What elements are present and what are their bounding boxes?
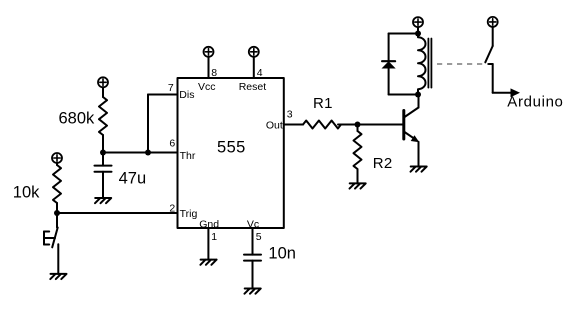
- svg-text:Reset: Reset: [239, 81, 267, 93]
- svg-text:6: 6: [169, 138, 175, 150]
- svg-text:680k: 680k: [59, 109, 96, 127]
- capacitor C 10n: [244, 255, 261, 261]
- wire 680k to node A: [102, 135, 104, 153]
- ground under 10n: [245, 289, 261, 294]
- svg-text:1: 1: [211, 231, 217, 243]
- wire pin5 Vc: [252, 228, 254, 255]
- svg-text:Vc: Vc: [247, 219, 259, 231]
- wire pin3 Out: [284, 124, 303, 126]
- svg-text:2: 2: [169, 202, 175, 214]
- svg-text:7: 7: [168, 82, 174, 94]
- wire 10n to ground: [252, 261, 254, 289]
- svg-text:Out: Out: [266, 120, 283, 132]
- pushbutton switch S1: [44, 228, 58, 248]
- wire R1 to transistor base: [338, 124, 403, 126]
- svg-text:5: 5: [256, 231, 262, 243]
- wire contact down: [492, 64, 494, 93]
- ground under R2: [350, 183, 366, 188]
- svg-text:R1: R1: [313, 95, 333, 112]
- wire to Arduino arrow: [493, 92, 511, 94]
- resistor R1: [303, 121, 341, 129]
- arrowhead to Arduino: [511, 88, 521, 97]
- svg-text:10k: 10k: [13, 184, 40, 202]
- relay contact switch S2: [485, 46, 492, 64]
- wire node B up: [147, 95, 149, 153]
- wire pin1 Gnd: [207, 228, 209, 260]
- node A junction: [100, 150, 106, 156]
- svg-text:Gnd: Gnd: [199, 219, 219, 231]
- svg-text:Vcc: Vcc: [198, 81, 216, 93]
- dashed mechanical link: [437, 63, 490, 65]
- wire node D to R2: [357, 125, 359, 132]
- wire node A to capacitor: [102, 153, 104, 166]
- wire node A to Thr pin6: [103, 152, 178, 154]
- diode D1 flyback: [382, 61, 396, 68]
- ground under switch: [50, 274, 66, 279]
- svg-text:Dis: Dis: [179, 89, 194, 101]
- wire relay bottom left: [389, 94, 418, 96]
- power symbol P1 (top of 680k): [98, 77, 108, 87]
- relay core: [428, 39, 431, 88]
- wire P1 stem: [102, 87, 104, 97]
- wire to Dis pin7: [148, 94, 178, 96]
- svg-text:3: 3: [287, 109, 293, 121]
- power symbol P6 (relay contact): [488, 17, 498, 27]
- wire 10k to node C: [56, 203, 58, 213]
- power symbol P4 (Reset pin4): [249, 47, 259, 57]
- wire pin8 stem: [208, 57, 210, 78]
- wire diode anode: [388, 69, 390, 95]
- wire P5 stem: [417, 27, 419, 33]
- node F junction (relay top): [415, 31, 421, 37]
- power symbol P3 (Vcc pin8): [204, 47, 214, 57]
- wire cap to ground: [102, 172, 104, 198]
- svg-text:10n: 10n: [268, 245, 296, 263]
- svg-text:Thr: Thr: [180, 150, 196, 162]
- capacitor C 47u: [95, 166, 112, 172]
- wire R2 to ground: [357, 170, 359, 184]
- ground under emitter: [411, 167, 427, 172]
- wire relay top left: [389, 33, 418, 35]
- svg-text:8: 8: [211, 67, 217, 79]
- op-amp U1 555 timer box: [178, 78, 284, 228]
- svg-text:4: 4: [257, 67, 263, 79]
- power symbol P5 (relay): [413, 17, 423, 27]
- wire node C to switch: [56, 213, 58, 228]
- svg-text:Arduino: Arduino: [507, 93, 563, 110]
- power symbol P2 (top of 10k): [52, 153, 62, 163]
- ground under pin1: [200, 260, 216, 265]
- wire emitter to ground: [418, 142, 420, 167]
- wire P2 stem: [56, 163, 58, 165]
- node G junction (collector/relay bottom): [415, 92, 421, 98]
- node C junction: [54, 210, 60, 216]
- svg-text:R2: R2: [373, 155, 393, 172]
- svg-text:555: 555: [217, 139, 246, 157]
- svg-text:47u: 47u: [119, 170, 147, 188]
- node D junction: [355, 122, 361, 128]
- resistor R2: [354, 131, 362, 169]
- wire node C to Trig pin2: [57, 212, 178, 214]
- resistor 680k: [99, 97, 107, 135]
- ground under 47u: [95, 198, 111, 203]
- transistor Q1 NPN: [404, 95, 420, 143]
- svg-text:Trig: Trig: [180, 208, 198, 220]
- relay coil L1: [418, 34, 426, 95]
- wire pin4 stem: [253, 57, 255, 78]
- node B junction: [145, 150, 151, 156]
- wire switch to ground: [57, 244, 59, 274]
- resistor 10k: [53, 165, 61, 203]
- wire diode cathode: [388, 34, 390, 62]
- wire P6 stem: [492, 27, 494, 46]
